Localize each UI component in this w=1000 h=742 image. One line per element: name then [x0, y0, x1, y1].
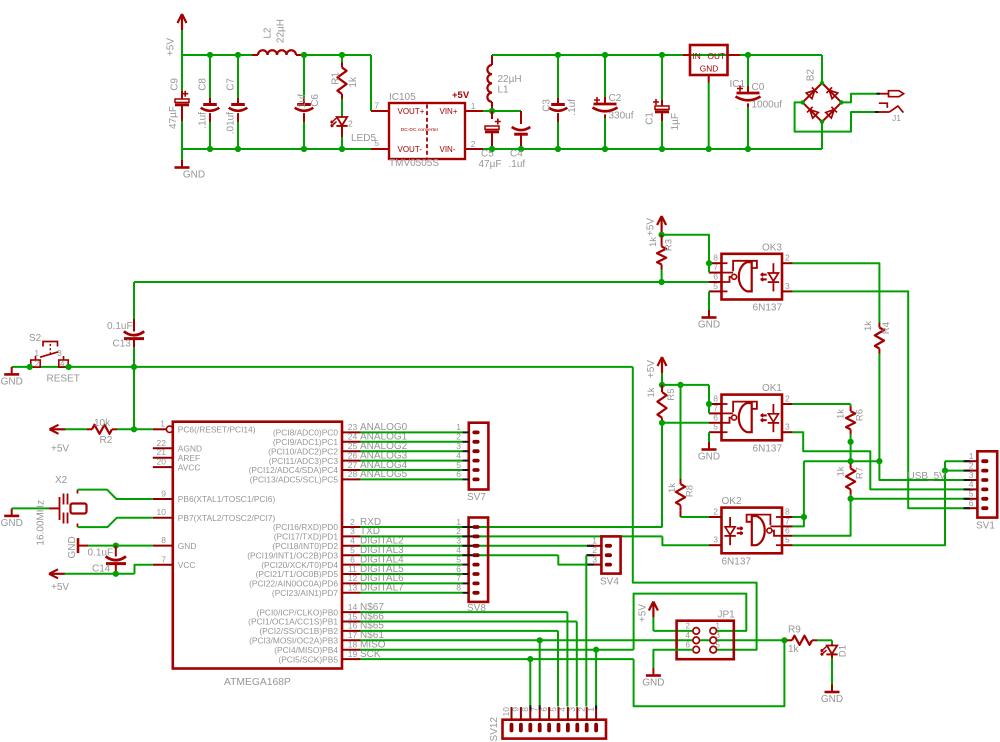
svg-text:5: 5 [713, 281, 718, 291]
svg-text:28: 28 [348, 469, 358, 479]
svg-text:1: 1 [471, 101, 476, 111]
svg-text:L1: L1 [498, 85, 510, 96]
svg-text:X2: X2 [55, 475, 68, 486]
svg-text:1k: 1k [667, 483, 678, 493]
svg-text:+5V: +5V [452, 90, 470, 101]
svg-text:C4: C4 [510, 149, 523, 160]
svg-text:GND: GND [1, 376, 23, 387]
svg-text:C8: C8 [198, 78, 209, 91]
svg-text:.1uf: .1uf [509, 159, 526, 170]
svg-text:22µH: 22µH [276, 19, 287, 43]
svg-text:R2: R2 [100, 435, 113, 446]
svg-text:2: 2 [785, 394, 790, 404]
svg-text:GND: GND [821, 694, 843, 705]
svg-text:5: 5 [713, 422, 718, 432]
svg-text:R6: R6 [855, 409, 866, 421]
svg-text:2: 2 [35, 359, 40, 368]
svg-text:8: 8 [161, 535, 166, 545]
svg-text:+5V: +5V [51, 444, 69, 455]
svg-text:0.1uF: 0.1uF [107, 321, 133, 332]
svg-text:PC6(/RESET/PCI14): PC6(/RESET/PCI14) [178, 425, 256, 435]
svg-text:1k: 1k [863, 321, 874, 331]
svg-text:16.00MHz: 16.00MHz [36, 500, 47, 546]
svg-text:7: 7 [161, 554, 166, 564]
svg-text:S2: S2 [29, 333, 42, 344]
svg-text:J1: J1 [892, 113, 901, 123]
svg-text:RESET: RESET [47, 374, 80, 385]
svg-text:4: 4 [60, 359, 65, 368]
svg-text:AVCC: AVCC [178, 462, 201, 472]
svg-text:.1uf: .1uf [297, 94, 308, 111]
svg-text:VOUT+: VOUT+ [398, 107, 425, 116]
svg-text:47µF: 47µF [168, 106, 179, 129]
svg-text:.1uf: .1uf [198, 112, 209, 129]
svg-text:C3: C3 [542, 99, 553, 112]
svg-text:OK1: OK1 [762, 383, 782, 394]
svg-text:(PCI13/ADC5/SCL)PC5: (PCI13/ADC5/SCL)PC5 [250, 475, 339, 485]
svg-text:OK2: OK2 [722, 496, 742, 507]
svg-text:4: 4 [686, 631, 691, 640]
svg-text:C9: C9 [170, 78, 181, 91]
svg-text:LED5: LED5 [351, 133, 376, 144]
svg-text:3: 3 [716, 631, 721, 640]
svg-text:GND: GND [698, 320, 720, 331]
svg-text:1k: 1k [348, 76, 359, 88]
svg-text:VOUT-: VOUT- [398, 145, 423, 154]
svg-text:6: 6 [969, 498, 974, 508]
svg-text:SV4: SV4 [600, 577, 619, 588]
svg-text:JP1: JP1 [718, 610, 736, 621]
svg-text:2: 2 [348, 119, 353, 129]
svg-text:C0: C0 [752, 82, 765, 93]
svg-text:C1: C1 [645, 112, 656, 125]
svg-text:(PCI5/SCK)PB5: (PCI5/SCK)PB5 [278, 654, 338, 664]
svg-text:IC105: IC105 [389, 92, 416, 103]
svg-text:R1: R1 [331, 72, 342, 85]
svg-text:5: 5 [716, 640, 721, 649]
svg-text:C7: C7 [226, 78, 237, 91]
svg-text:1k: 1k [646, 387, 657, 397]
svg-text:SV7: SV7 [467, 492, 486, 503]
svg-text:.1uf: .1uf [567, 99, 578, 116]
svg-text:SV1: SV1 [976, 521, 995, 532]
svg-text:13: 13 [348, 583, 358, 593]
svg-text:6N137: 6N137 [722, 556, 752, 567]
svg-text:TMV0505S: TMV0505S [389, 158, 439, 169]
svg-text:2: 2 [713, 507, 718, 517]
svg-text:1µF: 1µF [670, 113, 681, 130]
svg-text:IN: IN [693, 51, 701, 61]
svg-text:L2: L2 [263, 27, 274, 39]
svg-text:C6: C6 [310, 94, 321, 107]
svg-text:VCC: VCC [178, 560, 196, 570]
svg-text:7: 7 [374, 101, 379, 111]
svg-text:VIN-: VIN- [440, 145, 456, 154]
svg-text:GND: GND [698, 452, 720, 463]
svg-text:PB7(XTAL2/TOSC2/PCI7): PB7(XTAL2/TOSC2/PCI7) [178, 513, 276, 523]
svg-text:1: 1 [586, 707, 596, 712]
svg-text:(PCI23/AIN1)PD7: (PCI23/AIN1)PD7 [272, 588, 338, 598]
svg-text:6: 6 [686, 640, 691, 649]
svg-text:+5V: +5V [646, 218, 657, 236]
svg-text:OK3: OK3 [762, 242, 782, 253]
svg-text:1k: 1k [788, 644, 800, 655]
svg-text:+5V: +5V [51, 582, 69, 593]
svg-text:20: 20 [157, 457, 167, 467]
svg-text:1000uf: 1000uf [752, 100, 783, 111]
svg-text:22µH: 22µH [498, 74, 522, 85]
svg-text:8: 8 [456, 583, 461, 593]
svg-text:+5V: +5V [638, 604, 649, 622]
svg-text:USB_5V: USB_5V [908, 471, 947, 482]
svg-text:1k: 1k [648, 237, 659, 247]
svg-text:R8: R8 [685, 485, 696, 497]
svg-text:2: 2 [785, 253, 790, 263]
svg-text:5: 5 [785, 535, 790, 545]
svg-text:.01uf: .01uf [226, 112, 237, 134]
svg-text:OUT: OUT [707, 51, 725, 61]
svg-text:+5V: +5V [646, 360, 657, 378]
svg-text:10: 10 [157, 507, 167, 517]
svg-text:47µF: 47µF [479, 159, 502, 170]
svg-text:3: 3 [713, 535, 718, 545]
svg-text:B2: B2 [806, 69, 817, 82]
svg-text:10k: 10k [94, 418, 111, 429]
svg-text:3: 3 [785, 281, 790, 291]
svg-text:330uf: 330uf [609, 111, 634, 122]
svg-text:R3: R3 [664, 239, 675, 251]
svg-text:1k: 1k [836, 409, 847, 419]
svg-text:C2: C2 [609, 93, 622, 104]
svg-text:C13: C13 [113, 339, 132, 350]
svg-text:DC-DC converter: DC-DC converter [401, 127, 439, 133]
svg-text:R7: R7 [855, 467, 866, 479]
svg-text:GND: GND [183, 170, 205, 181]
svg-text:ATMEGA168P: ATMEGA168P [224, 677, 291, 688]
svg-text:SV12: SV12 [489, 717, 500, 742]
svg-text:C5: C5 [481, 149, 494, 160]
svg-text:6N137: 6N137 [753, 303, 783, 314]
svg-text:GND: GND [642, 678, 664, 689]
svg-text:1: 1 [716, 622, 721, 631]
svg-text:2: 2 [686, 622, 691, 631]
svg-text:VIN+: VIN+ [439, 107, 457, 116]
svg-text:3: 3 [57, 349, 62, 358]
svg-text:+5V: +5V [166, 38, 177, 56]
svg-text:19: 19 [348, 649, 358, 659]
svg-text:1k: 1k [836, 466, 847, 476]
svg-text:3: 3 [785, 422, 790, 432]
svg-text:1: 1 [35, 349, 40, 358]
svg-text:D1: D1 [838, 645, 849, 657]
svg-text:0.1uF: 0.1uF [88, 548, 114, 559]
svg-text:GND: GND [700, 64, 718, 74]
svg-text:R9: R9 [788, 625, 801, 636]
svg-text:6: 6 [456, 469, 461, 479]
svg-text:5: 5 [374, 138, 379, 148]
svg-text:R4: R4 [881, 322, 892, 334]
svg-text:GND: GND [178, 541, 197, 551]
svg-text:1: 1 [160, 419, 165, 429]
svg-text:GND: GND [67, 536, 78, 558]
svg-text:PB6(XTAL1/TOSC1/PCI6): PB6(XTAL1/TOSC1/PCI6) [178, 494, 276, 504]
svg-text:6N137: 6N137 [753, 443, 783, 454]
svg-text:R5: R5 [666, 389, 677, 401]
svg-text:9: 9 [161, 489, 166, 499]
svg-text:GND: GND [1, 518, 23, 529]
svg-text:2: 2 [471, 139, 476, 149]
